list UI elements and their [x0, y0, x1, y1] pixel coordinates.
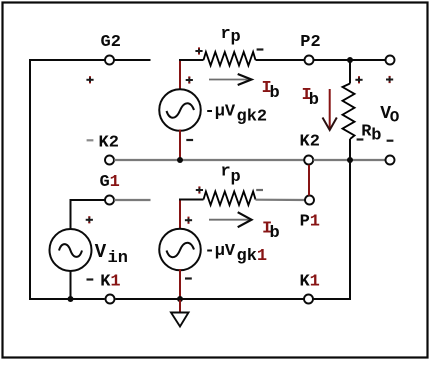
resistor R_b zigzag — [343, 84, 355, 140]
wire bottom left segment — [29, 298, 105, 300]
plus rp2 left — [196, 189, 203, 191]
source V_in circle — [50, 229, 92, 271]
minus K1 left — [87, 278, 94, 280]
wire G2 left — [29, 59, 105, 61]
svg-text:V: V — [95, 241, 107, 263]
voltage source U1 (-uVgk1) circle — [159, 229, 201, 271]
minus source1 bottom — [185, 277, 192, 279]
plus output top — [386, 79, 393, 81]
junction dot Vin bottom — [68, 296, 74, 302]
wire bottom right segment — [313, 298, 351, 300]
svg-text:G2: G2 — [101, 33, 121, 52]
svg-text:b: b — [309, 91, 319, 110]
svg-text:r: r — [221, 163, 231, 182]
svg-text:1: 1 — [110, 173, 120, 192]
node output top terminal — [386, 56, 395, 65]
wire rp2 lead left — [179, 199, 204, 201]
node G1 terminal — [105, 196, 114, 205]
plus G2-K2 polarity — [86, 79, 93, 81]
minus output bottom — [387, 140, 394, 142]
svg-text:1: 1 — [257, 247, 267, 266]
wire ground stub — [179, 300, 181, 312]
arrow I_b upper head — [238, 74, 252, 85]
wire G1 left — [71, 199, 105, 201]
arrow I_b vertical shaft — [329, 89, 331, 128]
plus source2 top — [186, 79, 193, 81]
plus Vin top — [86, 219, 93, 221]
wire G1 right — [114, 199, 150, 201]
minus rp1 right — [257, 48, 264, 50]
minus K2 left — [87, 139, 94, 141]
node K1 right terminal — [304, 295, 313, 304]
svg-text:gk: gk — [237, 247, 257, 266]
resistor r_p (upper) zigzag — [204, 52, 256, 66]
node K2 left terminal — [105, 156, 114, 165]
arrow I_b vertical head — [323, 118, 337, 131]
ground symbol — [171, 313, 189, 327]
node P2 terminal — [305, 56, 314, 65]
arrow I_b upper shaft — [209, 79, 249, 81]
wire source2 bottom lead — [179, 130, 181, 160]
node P1 terminal — [305, 196, 314, 205]
node K2 right terminal — [304, 156, 313, 165]
svg-text:r: r — [221, 25, 231, 44]
wire source1 top lead — [179, 201, 181, 230]
source U1 sine — [167, 243, 195, 257]
minus Rb bottom — [357, 138, 364, 140]
svg-text:in: in — [108, 249, 128, 268]
plus rp1 left — [195, 50, 202, 52]
node K1 left terminal — [106, 295, 115, 304]
svg-text:K2: K2 — [99, 134, 119, 153]
svg-text:-μV: -μV — [205, 103, 236, 122]
minus rp2 right — [256, 189, 263, 191]
svg-text:b: b — [371, 127, 381, 146]
wire right vertical lower — [349, 161, 351, 300]
voltage source U2 (-uVgk2) circle — [159, 89, 201, 131]
wire bottom middle segment — [115, 298, 303, 300]
wire source1 bottom lead — [179, 269, 181, 298]
plus Rb top — [355, 79, 362, 81]
wire Vin bottom lead — [70, 271, 72, 299]
svg-text:b: b — [270, 224, 280, 243]
arrow I_b lower shaft — [209, 219, 249, 221]
junction dot source1 bottom — [177, 296, 183, 302]
junction dot top right — [347, 57, 353, 63]
wire Rb bottom lead — [349, 139, 351, 160]
wire rp1 to P2 — [256, 59, 305, 61]
svg-text:p: p — [231, 28, 241, 47]
wire left vertical — [29, 59, 31, 300]
wire rp2 to P1 — [256, 199, 306, 202]
svg-text:K2: K2 — [300, 133, 320, 152]
svg-text:O: O — [390, 109, 400, 127]
svg-text:1: 1 — [310, 213, 320, 232]
svg-text:gk2: gk2 — [237, 108, 268, 127]
resistor r_p (lower) zigzag — [204, 192, 256, 206]
wire P2 to junction — [314, 59, 350, 61]
wire rp1 lead left — [179, 59, 204, 61]
wire Rb top lead — [349, 60, 351, 84]
wire junction to output top — [350, 59, 385, 61]
junction dot source2-K2 — [177, 157, 183, 163]
minus source2 bottom — [186, 139, 193, 141]
svg-text:1: 1 — [310, 273, 320, 292]
svg-text:1: 1 — [110, 273, 120, 292]
wire source2 top lead — [179, 61, 181, 91]
svg-text:p: p — [231, 168, 241, 187]
svg-text:-μV: -μV — [205, 242, 236, 261]
wire G2 right — [114, 59, 150, 61]
plus source1 top — [185, 219, 192, 221]
source U2 sine — [167, 103, 195, 117]
svg-text:P2: P2 — [300, 33, 320, 52]
node output bottom terminal — [386, 156, 395, 165]
source V_in sine — [59, 244, 82, 257]
wire K2 row left — [114, 159, 304, 161]
wire K2-P1 red stub — [308, 165, 310, 196]
wire K2 row right — [313, 159, 385, 161]
svg-text:P: P — [300, 213, 310, 232]
node G2 terminal — [105, 56, 114, 65]
arrow I_b lower head — [238, 212, 252, 227]
wire Vin top lead — [70, 199, 72, 230]
junction dot Rb bottom — [347, 157, 353, 163]
svg-text:G: G — [100, 173, 110, 192]
svg-text:b: b — [270, 84, 280, 103]
